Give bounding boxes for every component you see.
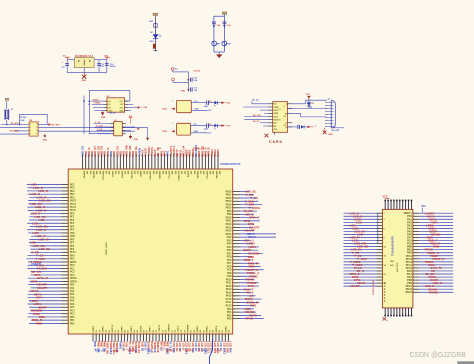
- wire right branch: [223, 16, 225, 52]
- svg-text:68PF7: 68PF7: [150, 325, 152, 332]
- U1 top pins (44): [82, 154, 219, 169]
- capacitor C10: [188, 79, 190, 81]
- flash U3 W25Q16 body: [114, 122, 123, 136]
- svg-text:PD11: PD11: [226, 221, 232, 223]
- svg-text:PC8: PC8: [227, 266, 232, 268]
- U2 inner markings: [108, 100, 124, 113]
- P1 right wires: [413, 213, 453, 293]
- Y1 diode: [214, 101, 217, 105]
- svg-text:W: W: [285, 113, 287, 115]
- crystal Y2 32.768kHz: [4, 109, 6, 120]
- arrow DS_RST: [48, 123, 51, 125]
- svg-text:VSS: VSS: [70, 233, 75, 235]
- Y1 right arrow: [217, 102, 221, 104]
- svg-text:109PF: 109PF: [111, 171, 113, 178]
- wire U4 gnd stem: [83, 68, 85, 73]
- svg-text:TOUCH_MISO: TOUCH_MISO: [373, 280, 375, 295]
- svg-text:PB15: PB15: [226, 208, 232, 210]
- svg-text:127PC2: 127PC2: [168, 171, 170, 180]
- U3 right mark: [137, 128, 140, 130]
- svg-text:PG3: PG3: [227, 240, 232, 242]
- svg-text:SPI1_S: SPI1_S: [249, 216, 259, 220]
- svg-text:GND: GND: [113, 349, 119, 352]
- LED DS0: [153, 34, 159, 38]
- svg-text:GBC: GBC: [390, 261, 395, 263]
- P1 top pins: [384, 200, 412, 210]
- svg-text:PE5: PE5: [70, 194, 75, 196]
- svg-text:PB13: PB13: [226, 201, 232, 203]
- svg-text:PE6: PE6: [70, 197, 75, 199]
- sd card J1 body: [273, 102, 288, 133]
- svg-text:PD9: PD9: [227, 214, 232, 216]
- svg-text:PD13: PD13: [226, 227, 232, 229]
- U1 left pin wires: [27, 184, 69, 324]
- svg-text:SD_D3: SD_D3: [252, 99, 259, 101]
- Y3 cap: [206, 123, 208, 127]
- svg-text:PD10: PD10: [226, 217, 232, 219]
- connector P1 TFTLCD body: [382, 209, 413, 308]
- svg-text:VCC: VCC: [383, 196, 388, 199]
- capacitor C11: [188, 89, 190, 91]
- svg-text:RS485_: RS485_: [429, 290, 440, 294]
- svg-text:32K: 32K: [227, 44, 231, 46]
- svg-text:PG5: PG5: [227, 247, 232, 249]
- P1 left vertical feed wire: [377, 213, 379, 243]
- svg-text:PF6: PF6: [70, 239, 75, 241]
- P1 left wires: [344, 213, 383, 287]
- U1 bottom pin net labels: [93, 341, 232, 355]
- svg-text:GND: GND: [134, 139, 139, 141]
- svg-text:9: 9: [284, 106, 285, 108]
- svg-text:32.768: 32.768: [20, 117, 27, 119]
- svg-text:GND: GND: [181, 91, 186, 93]
- wire vin: [67, 59, 74, 61]
- svg-text:VCC: VCC: [119, 101, 124, 103]
- svg-text:SPI1_M: SPI1_M: [37, 276, 48, 280]
- bell B1: [212, 41, 217, 46]
- svg-text:NRST: NRST: [70, 262, 77, 264]
- wire vout: [94, 59, 107, 61]
- svg-text:PC9: PC9: [227, 270, 232, 272]
- svg-text:CMD: CMD: [274, 107, 279, 109]
- capacitor C2: [222, 21, 226, 23]
- U1 inside pin names: [70, 171, 232, 333]
- svg-text:BEEP: BEEP: [185, 349, 192, 352]
- U2 ground: [101, 112, 105, 115]
- svg-text:STM32F407ZGT6: STM32F407ZGT6: [220, 163, 241, 166]
- svg-text:RMII: RMII: [433, 245, 439, 249]
- svg-text:CD: CD: [274, 129, 278, 131]
- svg-text:PF7: PF7: [70, 243, 75, 245]
- svg-text:PB2: PB2: [70, 323, 75, 325]
- wire U5 pin1 row: [1, 124, 29, 126]
- svg-text:PB11: PB11: [226, 195, 232, 197]
- U1 left net labels: [30, 183, 51, 326]
- svg-text:A: A: [384, 300, 386, 303]
- capacitor C1: [212, 21, 216, 23]
- Y3 left arrow: [171, 130, 175, 132]
- svg-text:8M: 8M: [217, 44, 220, 46]
- svg-text:DS_RST: DS_RST: [52, 124, 61, 126]
- arrow red clamp: [308, 126, 312, 128]
- U2 left pin wires: [91, 101, 107, 111]
- crystal Y1 body: [177, 100, 192, 112]
- U5 right pin wires: [38, 124, 48, 126]
- U5 feedback loop wire: [20, 114, 48, 124]
- U2 feedback loop wire: [89, 91, 130, 105]
- svg-text:FSMC_NBL1: FSMC_NBL1: [106, 241, 108, 255]
- svg-text:P10: P10: [421, 205, 426, 208]
- Y1 right row B: [191, 109, 207, 111]
- wire U5 pin4 row: [0, 133, 29, 135]
- P1 inside pin names: [383, 211, 412, 303]
- svg-text:PG6: PG6: [227, 250, 232, 252]
- svg-text:VSS: VSS: [147, 349, 152, 352]
- Y1 left arrow: [171, 108, 175, 110]
- svg-text:106PC13: 106PC13: [101, 171, 103, 181]
- svg-text:A: A: [384, 282, 386, 285]
- header J2 bracket: [331, 101, 335, 129]
- svg-text:65VSS: 65VSS: [140, 325, 142, 332]
- svg-text:PD0: PD0: [227, 309, 232, 311]
- capacitor C15: [97, 63, 101, 65]
- svg-text:GND: GND: [108, 111, 113, 113]
- wire top rail: [214, 15, 225, 17]
- ground X star: [323, 131, 327, 135]
- svg-text:53PE5: 53PE5: [102, 325, 104, 332]
- wire left cap drop: [66, 60, 68, 73]
- Y3 diode: [214, 124, 217, 128]
- long wire U5 to U3 A: [38, 128, 148, 138]
- svg-text:PC1: PC1: [70, 268, 75, 270]
- bell B2: [222, 41, 227, 46]
- U3 ground: [130, 134, 132, 136]
- svg-text:BOOT1: BOOT1: [128, 349, 137, 352]
- wire bottom rail: [214, 51, 225, 53]
- flag B: [172, 78, 175, 81]
- Y2 top lead + power mark: [6, 101, 8, 109]
- svg-text:F_DO: F_DO: [97, 129, 103, 131]
- svg-text:PB1: PB1: [70, 320, 75, 322]
- power flag VCC (LED string): [153, 13, 158, 15]
- Y1 cap: [206, 101, 208, 105]
- svg-text:PD3: PD3: [227, 319, 232, 321]
- svg-text:PG2: PG2: [227, 237, 232, 239]
- svg-text:PD2: PD2: [227, 315, 232, 317]
- svg-text:PC13: PC13: [70, 204, 76, 206]
- P1 left net labels: [349, 211, 368, 288]
- J2 pins: [325, 102, 333, 127]
- svg-text:PC11: PC11: [226, 302, 232, 304]
- svg-text:PG8: PG8: [227, 257, 232, 259]
- svg-text:TPAD: TPAD: [201, 349, 208, 352]
- wire to BOOT0 below U1: [210, 339, 213, 364]
- wire U5 pin3 row: [14, 130, 29, 132]
- vertical bus 2: [83, 96, 85, 134]
- svg-text:71PF10: 71PF10: [159, 324, 161, 332]
- svg-text:80VREF: 80VREF: [188, 324, 190, 333]
- svg-text:130VREF+: 130VREF+: [177, 171, 179, 182]
- J2 bottom wire: [331, 127, 344, 129]
- svg-text:PC6: PC6: [227, 260, 232, 262]
- svg-text:PC5: PC5: [70, 314, 75, 316]
- svg-text:PD12: PD12: [226, 224, 232, 226]
- U3 right pin wires: [122, 124, 126, 134]
- svg-text:VDD: VDD: [70, 236, 75, 238]
- mcu U1 STM32F407ZGT6 body: [68, 169, 233, 334]
- svg-text:PD15: PD15: [226, 234, 232, 236]
- wire row1 to J2 top: [292, 100, 327, 104]
- svg-text:PH0: PH0: [70, 255, 75, 257]
- svg-text:PC12: PC12: [226, 306, 232, 308]
- vertical bus to U3: [89, 104, 110, 133]
- svg-text:PC0: PC0: [70, 265, 75, 267]
- svg-text:PC2: PC2: [70, 272, 75, 274]
- svg-text:A: A: [384, 297, 386, 300]
- svg-text:LCD_W: LCD_W: [38, 237, 49, 241]
- svg-text:F_CS: F_CS: [95, 122, 101, 124]
- LED string end stub: [153, 50, 157, 52]
- J1 inner pin names: [274, 104, 279, 131]
- Y1 right row A: [191, 102, 206, 104]
- svg-text:PB0: PB0: [70, 317, 75, 319]
- svg-text:PE2: PE2: [70, 184, 75, 186]
- svg-text:S2: S2: [284, 125, 286, 127]
- wire sd row C to header: [288, 113, 326, 117]
- wire sd row B to header: [288, 108, 326, 110]
- svg-text:1: 1: [172, 100, 173, 102]
- svg-text:SD_CLK: SD_CLK: [253, 115, 262, 117]
- svg-text:VSS: VSS: [274, 110, 279, 112]
- svg-text:112PF3: 112PF3: [120, 171, 122, 179]
- svg-text:PE3: PE3: [70, 188, 75, 190]
- wire U5 pin2 row: [0, 127, 29, 129]
- svg-text:PC15: PC15: [70, 210, 76, 212]
- svg-text:SD_D0: SD_D0: [253, 121, 260, 123]
- long wire U5 to U3 B: [38, 130, 135, 132]
- P1 right net labels: [425, 211, 445, 294]
- svg-text:VREF+: VREF+: [70, 281, 78, 283]
- wire left branch: [213, 16, 215, 52]
- svg-text:A: A: [384, 285, 386, 288]
- svg-text:PF0: PF0: [70, 213, 75, 215]
- svg-text:220uF: 220uF: [110, 66, 117, 68]
- svg-text:PH1: PH1: [70, 259, 75, 261]
- resistor R36: [154, 24, 158, 28]
- corner block: [457, 361, 474, 364]
- svg-text:TPAD: TPAD: [245, 317, 254, 321]
- svg-text:FSMC_A6: FSMC_A6: [193, 148, 205, 151]
- wire row B: [173, 82, 189, 84]
- svg-text:FSMC_N: FSMC_N: [433, 257, 445, 261]
- svg-text:PF5: PF5: [70, 230, 75, 232]
- svg-text:U6 AMS1117-3.3: U6 AMS1117-3.3: [75, 55, 94, 58]
- P1 bottom no-connect X: [383, 317, 387, 321]
- diode D4: [153, 44, 156, 48]
- wire gnd stem: [218, 52, 220, 54]
- svg-text:PDR_ON: PDR_ON: [95, 349, 105, 352]
- bottom horizontal net labels: [95, 349, 222, 352]
- svg-text:VDD: VDD: [274, 113, 279, 115]
- svg-text:115VSS: 115VSS: [130, 171, 132, 179]
- vertical cap bus: [188, 72, 190, 92]
- capacitor C13 (input): [65, 63, 69, 65]
- svg-text:S1: S1: [284, 116, 286, 118]
- svg-text:PC10: PC10: [226, 299, 232, 301]
- svg-text:77PC2: 77PC2: [178, 325, 180, 332]
- svg-text:CSDN @GJZGRB: CSDN @GJZGRB: [410, 352, 467, 359]
- svg-text:PC7: PC7: [227, 263, 232, 265]
- svg-text:GND: GND: [274, 120, 279, 122]
- svg-text:100PE2: 100PE2: [83, 171, 85, 180]
- svg-text:PC3: PC3: [70, 275, 75, 277]
- svg-text:SD_DET: SD_DET: [332, 130, 341, 132]
- svg-text:92PB1: 92PB1: [225, 325, 227, 332]
- svg-text:GND: GND: [328, 134, 333, 136]
- svg-text:PF10: PF10: [70, 252, 76, 254]
- svg-text:A: A: [384, 294, 386, 297]
- svg-text:103PE5: 103PE5: [92, 171, 94, 180]
- svg-text:DHT11: DHT11: [166, 349, 174, 352]
- svg-text:PD8: PD8: [227, 211, 232, 213]
- U5 power mark: [43, 135, 46, 138]
- wire LED string: [154, 15, 156, 51]
- svg-text:PF8: PF8: [70, 246, 75, 248]
- J1 right pins: [288, 104, 293, 127]
- Y3 right row B: [191, 132, 208, 134]
- svg-text:PF9: PF9: [70, 249, 75, 251]
- J1 left pins: [268, 104, 273, 126]
- svg-text:GND: GND: [195, 109, 200, 111]
- svg-text:PF3: PF3: [70, 223, 75, 225]
- svg-text:PF2: PF2: [70, 220, 75, 222]
- svg-text:PG7: PG7: [227, 253, 232, 255]
- Y2 bottom lead: [6, 120, 8, 125]
- U1 right net labels: [243, 190, 260, 321]
- svg-text:GND: GND: [101, 117, 106, 119]
- svg-text:C A R D: C A R D: [269, 140, 283, 144]
- svg-text:RMII: RMII: [36, 321, 42, 325]
- svg-text:PD1: PD1: [227, 312, 232, 314]
- svg-text:LCD_BL: LCD_BL: [39, 247, 51, 251]
- J1 no-connect X: [265, 134, 269, 138]
- svg-text:PB12: PB12: [226, 198, 232, 200]
- svg-text:1: 1: [172, 123, 173, 125]
- svg-text:118PF: 118PF: [139, 171, 141, 178]
- U1 top pin net labels: [81, 144, 220, 157]
- U1 bottom pins (44): [92, 334, 229, 341]
- P1 bottom pins: [384, 308, 412, 317]
- flag NRST: [171, 68, 174, 71]
- eeprom U2 24C02 body: [107, 98, 125, 112]
- ground symbol U4: [82, 75, 86, 79]
- svg-text:PB10: PB10: [226, 191, 232, 193]
- svg-text:A: A: [384, 291, 386, 294]
- wire sd row E diode clamp: [288, 126, 298, 128]
- arrow IIC: [138, 106, 141, 108]
- svg-text:121PF10: 121PF10: [149, 171, 151, 181]
- rtc U5 DS1302 body: [29, 122, 38, 136]
- svg-text:A: A: [384, 288, 386, 291]
- regulator U4 AMS1117-3.3: [74, 58, 94, 68]
- power flag VCC (branch pair): [222, 12, 226, 14]
- wire nrst row: [173, 71, 189, 73]
- svg-text:GND: GND: [194, 131, 199, 133]
- header J2 spine: [330, 101, 332, 129]
- ground symbol branch pair: [216, 54, 222, 58]
- J1 left wires: [252, 103, 268, 105]
- U1 right pin wires: [233, 191, 276, 319]
- svg-text:KEY0: KEY0: [215, 349, 222, 352]
- power mark at wire end: [146, 138, 149, 141]
- U3 left pin wires: [93, 124, 113, 134]
- wire gnd rail: [67, 71, 107, 73]
- Y3 right row A: [191, 125, 207, 127]
- U5 inner pins: [30, 123, 38, 134]
- wire right cap drops: [98, 60, 100, 73]
- svg-text:50PE2: 50PE2: [93, 325, 95, 332]
- svg-text:PF1: PF1: [70, 217, 75, 219]
- svg-text:56PC13: 56PC13: [112, 324, 114, 333]
- svg-text:CLK: CLK: [274, 116, 279, 118]
- Y3 right arrow: [217, 125, 221, 127]
- capacitor C16: [105, 63, 109, 65]
- svg-text:GND: GND: [43, 139, 48, 141]
- svg-text:USART: USART: [350, 284, 360, 288]
- U2 right pin wires: [125, 101, 129, 111]
- crystal Y3 body: [177, 123, 191, 135]
- svg-text:62PF3: 62PF3: [131, 325, 133, 332]
- svg-text:F_CLK: F_CLK: [96, 125, 103, 127]
- svg-text:59PF0: 59PF0: [121, 325, 123, 332]
- svg-text:GND: GND: [81, 80, 86, 82]
